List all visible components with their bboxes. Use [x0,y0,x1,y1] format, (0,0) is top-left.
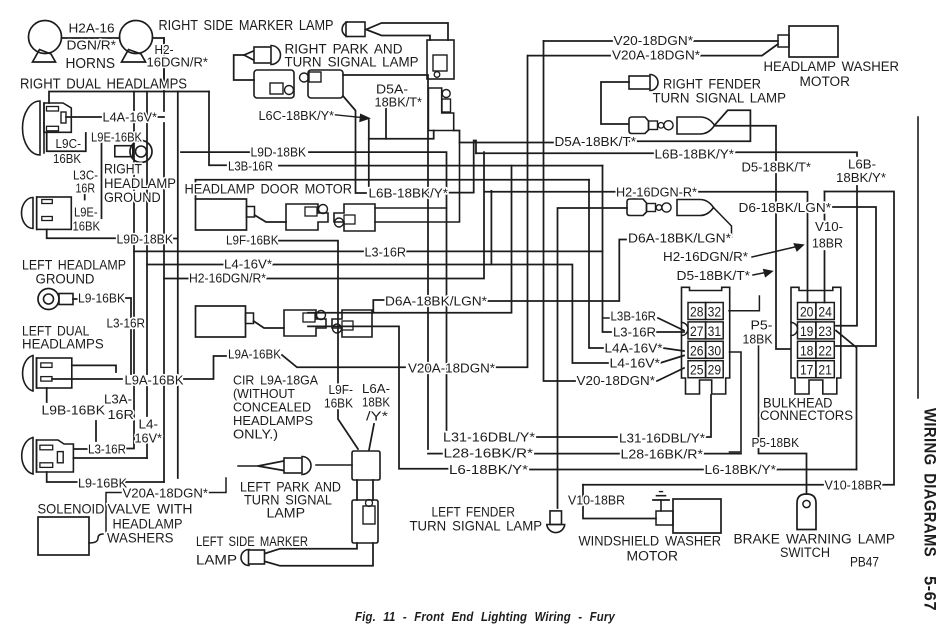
svg-text:16BK: 16BK [73,219,101,234]
svg-text:TURN SIGNAL LAMP: TURN SIGNAL LAMP [410,518,543,534]
headlamp door motor box (left) [196,306,254,337]
svg-text:23: 23 [818,324,832,339]
bulkhead connector right (cells 17-24) [791,287,841,394]
arrow H2 annotation [752,244,803,257]
svg-text:L4-16V*: L4-16V* [610,356,661,371]
wire D6 net to cell 22 [833,207,876,346]
wire V20A label left [528,55,610,57]
svg-text:ONLY.): ONLY.) [233,427,278,442]
wire L4A vertical [589,180,603,348]
svg-text:D6A-18BK/LGN*: D6A-18BK/LGN* [385,294,487,309]
left dual headlamp upper [23,356,72,392]
wire L9B stub from lamp3 [46,388,48,402]
svg-text:MOTOR: MOTOR [800,74,851,90]
wire solenoid to V20A [89,534,103,543]
svg-text:19: 19 [800,324,814,339]
wire L3B diagonal to connector [658,318,684,331]
headlamp washer motor box [778,26,838,57]
horn 2 [120,21,153,63]
svg-text:WIRING DIAGRAMS: WIRING DIAGRAMS [921,408,939,557]
svg-text:D5-18BK/T*: D5-18BK/T* [677,268,751,283]
svg-text:L9E-: L9E- [74,205,98,220]
wire L4A from upper headlamp [66,116,101,118]
svg-text:H2-16DGN/R*: H2-16DGN/R* [189,271,266,286]
wire L3A stub [95,421,97,441]
wire L9C from headlamp [47,132,86,151]
left dual headlamp lower [22,438,74,475]
wire V20 label left [544,40,613,42]
wire vertical L3 net (x=134) [133,92,135,444]
svg-text:L9-16BK: L9-16BK [78,476,127,491]
wire L28 right riser [730,352,742,452]
wire L4A label to vertical bus [158,116,164,118]
wire riser x=491 between L4 and H2 rows [490,191,492,265]
wire L4 to connector [660,356,684,364]
headlamp door motor box (right) [196,199,255,230]
svg-text:L31-16DBL/Y*: L31-16DBL/Y* [619,431,705,446]
wire L6 diagonal from cell 23 [836,331,857,470]
svg-text:18BK/T*: 18BK/T* [375,95,423,110]
svg-text:L3B-16R: L3B-16R [228,159,273,174]
wire L6B line2 right [735,152,857,156]
windshield washer motor ground symbol [653,492,669,511]
wire V20A label right diagonal [701,44,778,56]
svg-text:L9A-16BK: L9A-16BK [125,373,184,388]
svg-text:D5A-18BK/T*: D5A-18BK/T* [555,134,637,149]
wire V10 net [824,192,826,303]
svg-text:V20A-18DGN*: V20A-18DGN* [408,361,495,376]
svg-text:L9C-: L9C- [56,136,82,151]
svg-text:18BK: 18BK [362,395,390,410]
wire door motor to connector [255,215,287,222]
svg-text:LAMP: LAMP [196,552,237,568]
door motor connector pair 2 (left) [332,310,372,337]
wire V10 top link [825,192,895,485]
svg-text:/Y*: /Y* [366,409,388,424]
svg-text:22: 22 [818,343,832,358]
wire D6A hook to D6 connector [714,208,732,238]
svg-text:L4A-16V*: L4A-16V* [605,341,663,356]
wire door motor feed line [196,179,590,181]
svg-text:21: 21 [818,363,832,378]
svg-text:V20-18DGN*: V20-18DGN* [614,33,694,48]
door motor connector pair 2 (right) [334,204,375,231]
svg-text:LAMP: LAMP [267,505,306,521]
svg-text:HEADLAMPS: HEADLAMPS [22,336,104,352]
svg-text:18BK/Y*: 18BK/Y* [836,170,886,185]
svg-text:28: 28 [690,305,704,320]
wire V20A label right hook [209,478,226,493]
svg-text:18: 18 [800,343,814,358]
svg-text:L6-18BK/Y*: L6-18BK/Y* [449,462,528,477]
right fender turn signal bulb [629,75,658,91]
wire extension of z row to riser [373,166,511,313]
wire from D5A connector bottom [369,131,434,139]
wire V20 to cell 25 [657,368,684,381]
wire L9D net vertical [174,92,178,479]
wire risers between fender connector blocks [357,480,373,500]
wire left door motor to connector [254,321,285,328]
svg-text:WINDSHIELD WASHER: WINDSHIELD WASHER [579,534,722,550]
svg-text:L28-16BK/R*: L28-16BK/R* [621,447,704,462]
left side marker bulb [241,550,265,566]
svg-text:18BK: 18BK [743,332,773,347]
brake warning lamp switch [797,494,816,530]
wire H2 line [164,152,615,278]
svg-text:16DGN/R*: 16DGN/R* [147,55,209,70]
wire L31 right elbow to foot [705,395,711,437]
svg-text:HEADLAMP DOOR MOTOR: HEADLAMP DOOR MOTOR [185,182,353,198]
wire vertical L4 net (x=147) [146,92,148,459]
left fender turn signal bulb (hanging) [547,511,565,533]
svg-text:LEFT SIDE MARKER: LEFT SIDE MARKER [196,533,308,549]
svg-text:27: 27 [690,324,704,339]
bulkhead connector left (cells 25-32) [682,287,730,394]
wire vertical H2/L9 net (x=164) [163,38,165,482]
wire L9-16BK to vertical [73,298,131,374]
right side marker lamp connector [427,40,454,79]
left fender connector block lower [352,500,378,544]
wire P5 to brake switch [759,449,807,494]
wire L28 net from connector B [343,75,428,449]
wire P5 tab link [729,296,759,311]
wire H2-16DGN/R* from horn 2 down [153,38,165,92]
wire right fender bulb to socket [601,82,629,124]
left headlamp ground ring terminal [38,289,73,310]
svg-text:SWITCH: SWITCH [780,545,830,561]
svg-text:29: 29 [708,363,722,378]
svg-text:D6-18BK/LGN*: D6-18BK/LGN* [739,200,832,215]
wire L4 line [147,265,608,364]
svg-text:31: 31 [708,324,722,339]
horn 1 [29,21,62,63]
svg-text:16R: 16R [76,181,96,196]
svg-text:L3-16R: L3-16R [613,325,656,340]
svg-text:MOTOR: MOTOR [627,549,679,565]
svg-text:17: 17 [800,363,814,378]
right fender socket [629,117,673,134]
svg-text:L9D-18BK: L9D-18BK [251,145,307,160]
svg-text:V20A-18DGN*: V20A-18DGN* [612,48,700,63]
svg-text:16BK: 16BK [324,396,353,411]
wire L3 label2 links [74,443,134,449]
svg-text:16V*: 16V* [135,431,163,446]
svg-text:20: 20 [800,305,814,320]
wire L6 net from left cluster [308,326,448,468]
wire flag into left park bulb [258,461,284,471]
svg-text:32: 32 [708,305,722,320]
wire door motor feed drop [195,180,197,199]
wire L6B line2 left [476,152,653,154]
right fender connector [677,117,715,134]
wire V10 to washer motor [583,485,656,519]
door motor connector pair 1 (left) [284,310,326,336]
wire L3-16R line [134,250,603,252]
wire L3C stub [84,194,86,200]
svg-text:L3-16R: L3-16R [365,245,407,260]
wire from right park bulb to connector A [234,51,254,80]
svg-text:25: 25 [690,363,704,378]
wire L9A label1 to label2 bracket [184,356,226,379]
right headlamp ground ring terminal [115,141,152,163]
solenoid valve box [38,517,89,555]
left fender connector block upper [352,451,380,480]
svg-text:H2-16DGN/R*: H2-16DGN/R* [663,249,748,264]
svg-text:D5-18BK/T*: D5-18BK/T* [742,160,812,175]
svg-text:L4A-16V*: L4A-16V* [103,110,158,125]
D5A connector (below marker connector) [428,88,453,131]
wire V20 label right [694,40,778,42]
svg-text:HORNS: HORNS [66,56,116,72]
svg-text:TURN SIGNAL LAMP: TURN SIGNAL LAMP [653,91,787,107]
door motor connector pair 1 (right) [286,204,328,230]
wire flag from right fender connector [629,110,750,141]
wire L28 right link [700,453,741,455]
right park connector A [254,70,294,98]
svg-text:TURN SIGNAL LAMP: TURN SIGNAL LAMP [285,55,419,71]
wire door motor out lower [375,143,460,223]
svg-text:H2A-16: H2A-16 [69,21,115,36]
arrow from L6C label to wire [335,115,369,122]
wire H2A-16DGN/R* between horns [62,37,120,39]
D6 connector [677,200,714,216]
arrow D5 annotation [753,270,772,277]
svg-text:16BK: 16BK [53,151,81,166]
wire L6 right to diagonal riser [777,469,857,471]
svg-text:Fig. 11 - Front End Lighting W: Fig. 11 - Front End Lighting Wiring - Fu… [355,610,616,624]
svg-text:L9B-16BK: L9B-16BK [42,403,106,418]
svg-text:L4-: L4- [139,417,159,432]
svg-text:L6C-18BK/Y*: L6C-18BK/Y* [259,108,335,123]
wire L6B label1 right to vertical [449,141,476,193]
svg-text:SOLENOID: SOLENOID [38,501,105,517]
wire H2 into cell 20 [699,192,808,303]
wire from marker bulb upper [366,23,448,40]
wire flag lower from marker lamp [265,543,373,566]
wire lamp3 upper to L9A [72,365,116,372]
wire D5 net from connector [715,126,791,349]
svg-text:L9A-16BK: L9A-16BK [228,347,281,362]
svg-text:L9D-18BK: L9D-18BK [117,232,174,247]
right park connector B [300,70,344,98]
svg-text:PB47: PB47 [850,555,879,571]
svg-text:H2-16DGN-R*: H2-16DGN-R* [616,185,697,200]
wire L3B label1 to right [279,165,603,167]
svg-text:16R: 16R [108,407,135,422]
wire L9E down to lower label [101,141,103,218]
svg-text:DGN/R*: DGN/R* [67,38,117,53]
wire flag upper from marker lamp [265,543,357,554]
wire L6C net from connector B diagonal [343,96,366,193]
H2/D6 socket [627,199,671,216]
svg-text:V20-18DGN*: V20-18DGN* [577,373,656,388]
wire L6C vertical at arrow [368,120,370,186]
wire right dual headlamps feed [49,92,209,104]
wire L9D from lower headlamp [47,229,115,238]
wire V20A to solenoid [106,493,121,538]
svg-text:L4-16V*: L4-16V* [224,257,272,272]
svg-text:L6B-18BK/Y*: L6B-18BK/Y* [655,147,735,162]
svg-text:V10-: V10- [815,219,843,234]
wire V20 vertical [544,41,576,381]
wire left park bulb lead [238,465,258,467]
wire L9D-18BK second net [181,152,447,430]
svg-text:18BR: 18BR [812,236,843,251]
wire below D5A label1 [385,109,387,139]
wire L9 lower from lamp4 [47,472,77,482]
svg-text:GROUND: GROUND [104,189,161,205]
svg-text:L3-16R: L3-16R [107,316,146,331]
wire L3B elbow to label2 [603,317,610,319]
wire L3 vertical to label2 [603,166,612,332]
wire V20A mid bracket to vertical [496,56,528,368]
svg-text:L3B-16R: L3B-16R [611,309,657,324]
svg-text:V20A-18DGN*: V20A-18DGN* [123,486,209,501]
wire bulb to connector [316,464,352,466]
svg-text:L31-16DBL/Y*: L31-16DBL/Y* [443,430,535,445]
wire P5 vertical [758,346,760,437]
svg-text:L6B-18BK/Y*: L6B-18BK/Y* [369,186,449,201]
wire L9 lower right elbow [126,481,164,483]
wire L6A to connector [369,424,374,450]
wire L9F net [279,241,358,449]
wire tail right park bulb [244,55,254,60]
svg-text:CONNECTORS: CONNECTORS [760,408,853,424]
wire V10 long line [583,484,823,486]
svg-text:26: 26 [690,343,704,358]
svg-text:VALVE WITH: VALVE WITH [108,501,193,517]
wire door motor out upper [375,207,447,209]
wire D6A z-bend to left cluster [308,300,385,313]
svg-text:WASHERS: WASHERS [107,530,174,546]
svg-text:L28-16BK/R*: L28-16BK/R* [444,446,534,461]
svg-text:L9F-16BK: L9F-16BK [226,233,279,248]
svg-text:L9E-16BK: L9E-16BK [91,130,142,145]
svg-text:V10-18BR: V10-18BR [568,493,625,508]
right dual headlamp upper [23,101,72,155]
page edge rule [917,117,919,398]
wire L4 to lamp4 terminal [73,457,147,459]
wire D6A label link [488,240,626,302]
svg-text:P5-18BK: P5-18BK [752,435,800,450]
svg-text:RIGHT SIDE MARKER LAMP: RIGHT SIDE MARKER LAMP [159,18,334,34]
svg-text:L6-18BK/Y*: L6-18BK/Y* [705,462,777,477]
wire from marker bulb lower [366,30,430,41]
wire L6 connect [530,469,703,471]
svg-text:24: 24 [818,305,832,320]
svg-text:V10-18BR: V10-18BR [825,478,883,493]
left park/turn bulb [284,457,311,475]
right side marker lamp bulb [342,22,365,37]
svg-text:L3A-: L3A- [104,392,132,407]
svg-text:L3-16R: L3-16R [88,442,126,457]
svg-text:D6A-18BK/LGN*: D6A-18BK/LGN* [628,231,731,246]
wire L3B drop from bus [209,92,226,166]
right park/turn bulb [254,46,281,65]
wire L28 label1 left link [428,453,442,455]
svg-text:P5-: P5- [751,318,773,333]
svg-text:5-67: 5-67 [921,576,939,611]
wire L9A diagonal to V20A line [282,355,405,367]
wire from H2/D6 socket to hanging lamp [558,208,628,508]
wire L28 connect [535,453,619,455]
svg-text:RIGHT DUAL HEADLAMPS: RIGHT DUAL HEADLAMPS [20,77,187,93]
svg-text:L9-16BK: L9-16BK [78,291,125,306]
windshield washer motor box [656,499,721,533]
svg-text:HEADLAMP WASHER: HEADLAMP WASHER [764,59,900,75]
svg-text:30: 30 [708,343,722,358]
wire D5A line2 [454,131,553,143]
wire L3 to connector [657,331,684,333]
wire L6B vertical to cell 23 [836,186,857,326]
wire L4A to connector [663,348,684,351]
right dual headlamp lower [22,197,72,229]
wire L31 connect [537,436,617,438]
svg-text:GROUND: GROUND [36,271,95,287]
wire lamp3 lower slot to L9A [52,378,122,380]
